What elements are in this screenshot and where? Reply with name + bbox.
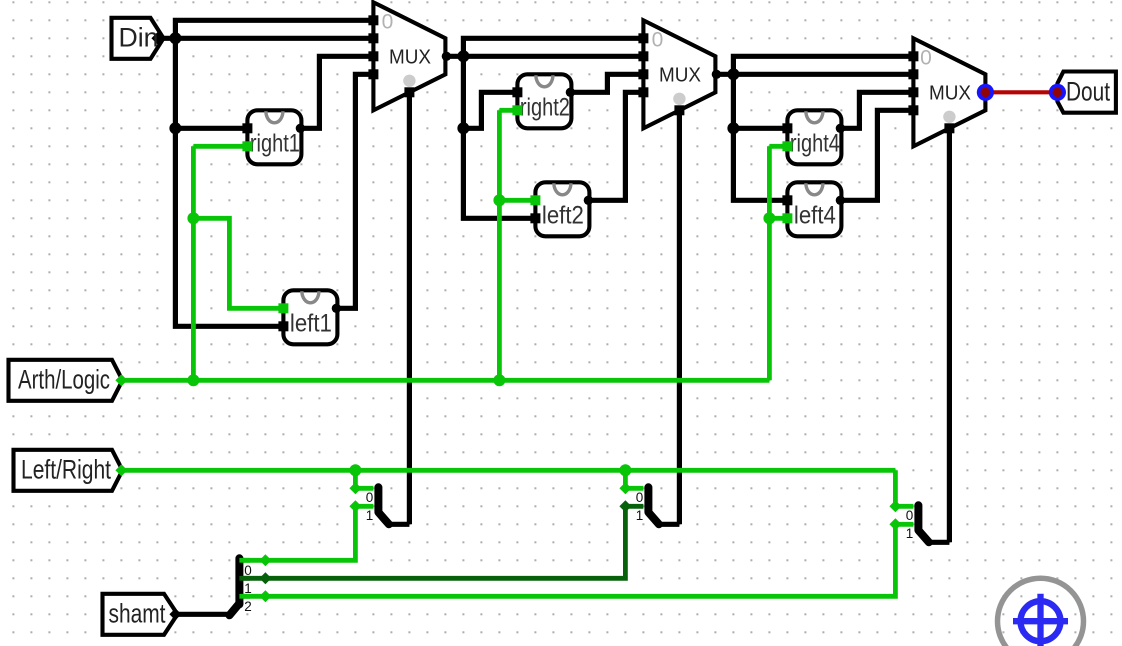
svg-text:MUX: MUX [659, 65, 701, 87]
wire MUX1 select vertical [407, 92, 412, 524]
wire shamt bit0 to smallmux1 in1 [242, 506, 373, 560]
svg-text:0: 0 [382, 11, 394, 34]
mux S1 (2:1 select mux for stage 1) [349, 482, 409, 524]
node stage3 green junction [763, 212, 775, 224]
wire right4 out to MUX3 in3 [841, 92, 916, 128]
svg-text:Arth/Logic: Arth/Logic [18, 365, 110, 395]
wire down to left4 input [733, 128, 787, 200]
wire MUX2 select vertical [677, 110, 682, 524]
JUNCTION DOTS [169, 32, 739, 134]
wire Left/Right drop to smallmux1 in0 [355, 470, 373, 488]
output pin Dout [1057, 72, 1116, 113]
wire MUX1 out to junction C [445, 54, 463, 59]
anchor crosshair logo [998, 578, 1084, 646]
node stage2 green junction [493, 194, 505, 206]
svg-text:1: 1 [366, 508, 374, 523]
wire stage2 green vertical [497, 110, 502, 380]
subcircuit left2 [530, 182, 593, 236]
subcircuit right2 [512, 74, 575, 128]
wire right1 out to MUX1 in3 [301, 56, 376, 128]
input pin Arth/Logic [9, 360, 128, 401]
svg-text:0: 0 [652, 29, 664, 52]
svg-text:left2: left2 [542, 202, 584, 230]
node Arth/Logic junction 2 [493, 374, 505, 386]
svg-text:MUX: MUX [389, 47, 431, 69]
node right1-in junction [169, 122, 181, 134]
subcircuit left4 [782, 182, 845, 236]
wire shamt bit1 (dark green, low) to smallmux2 in1 [242, 506, 643, 578]
wire stage3 green vertical [767, 146, 772, 380]
wire stage1 to right1 green in [193, 144, 247, 149]
mux S2 (2:1 select mux for stage 2) [619, 482, 679, 524]
splitter for shamt [229, 554, 271, 615]
svg-text:right1: right1 [250, 130, 300, 158]
wire junction E up to MUX3 in1 [733, 56, 916, 77]
wire Left/Right drop to smallmux3 in0 [895, 470, 913, 506]
subcircuit left1 [278, 290, 341, 344]
wire junction C up to MUX2 in1 [463, 38, 646, 59]
wire MUX2 out to junction E [715, 72, 733, 77]
wire stage3 to right4 green in [769, 144, 787, 149]
svg-text:right4: right4 [790, 130, 840, 158]
svg-text:left4: left4 [794, 202, 836, 230]
svg-text:1: 1 [906, 526, 914, 541]
input pin Left/Right [14, 450, 128, 491]
wire stage2 to right2 green in [499, 108, 517, 113]
wire Arth/Logic bus [121, 378, 769, 383]
subcircuit right1 [242, 110, 305, 164]
node F right4-in junction [727, 122, 739, 134]
wire left2 out to MUX2 in4 [589, 92, 646, 200]
node Din junction [169, 32, 181, 44]
wire down to left1 input [175, 128, 283, 326]
wire left4 out to MUX3 in4 [841, 110, 916, 200]
wire MUX3 select vertical [947, 128, 952, 542]
wire Left/Right drop to smallmux2 in0 [625, 470, 643, 488]
wire junction down to right1 branch [175, 38, 247, 128]
op MUX U2 [638, 20, 721, 128]
mux S3 (2:1 select mux for stage 3) [889, 500, 949, 542]
svg-text:0: 0 [920, 47, 932, 70]
WIRES-BLACK [157, 20, 949, 614]
wire Din out to junction [157, 36, 175, 41]
svg-text:2: 2 [244, 599, 252, 614]
svg-text:0: 0 [906, 508, 914, 523]
wire junction up to MUX1 in1 [175, 20, 376, 41]
wire shamt out to splitter [175, 612, 229, 617]
op MUX U1 [368, 2, 451, 110]
svg-text:right2: right2 [520, 94, 570, 122]
wire Left/Right bus [121, 468, 895, 473]
WIRES-GREEN [121, 110, 913, 596]
node D right2-in junction [457, 122, 469, 134]
svg-text:0: 0 [366, 490, 374, 505]
wire junction D down to left2 input [463, 128, 535, 218]
wire shamt bit2 to smallmux3 in1 [242, 524, 913, 596]
node C MUX1-out junction [457, 50, 469, 62]
wire junction to MUX1 in2 [175, 36, 376, 41]
wire junction C down to junction D [461, 56, 466, 128]
svg-text:Din: Din [119, 23, 159, 53]
svg-text:Left/Right: Left/Right [21, 455, 111, 485]
wire stage3 branch to left4 green in [769, 216, 787, 221]
wire stage2 branch to left2 green in [499, 198, 535, 203]
wire stage1 branch to left1 green in [193, 218, 283, 308]
input pin Din [112, 18, 164, 59]
node stage1 green junction [187, 212, 199, 224]
wire junction C to MUX2 in2 [463, 54, 646, 59]
op MUX U3 [908, 38, 985, 146]
wire left1 out to MUX1 in4 [337, 74, 376, 308]
wire junction D to right2 input [463, 92, 517, 128]
svg-text:shamt: shamt [109, 599, 166, 629]
node MUX3 output (unknown-value indicator) [977, 84, 994, 101]
svg-text:MUX: MUX [929, 83, 971, 105]
svg-text:Dout: Dout [1066, 77, 1110, 107]
input pin shamt [103, 594, 182, 635]
svg-text:1: 1 [636, 508, 644, 523]
node Left/Right junction 1 [349, 464, 361, 476]
subcircuit right4 [782, 110, 845, 164]
node E MUX2-out junction [727, 68, 739, 80]
wire stage1 green vertical [191, 146, 196, 380]
svg-text:0: 0 [244, 563, 252, 578]
wire right2 out to MUX2 in3 [571, 74, 646, 92]
svg-text:1: 1 [244, 581, 252, 596]
wire junction E down to right4 input [733, 74, 787, 128]
node Dout input (unknown-value indicator) [1049, 84, 1066, 101]
svg-text:0: 0 [636, 490, 644, 505]
wire MUX3 out to Dout (red error wire) [985, 90, 1057, 94]
svg-text:left1: left1 [290, 310, 332, 338]
node Left/Right junction 2 [619, 464, 631, 476]
wire junction E to MUX3 in2 [733, 72, 916, 77]
node Arth/Logic junction 1 [187, 374, 199, 386]
